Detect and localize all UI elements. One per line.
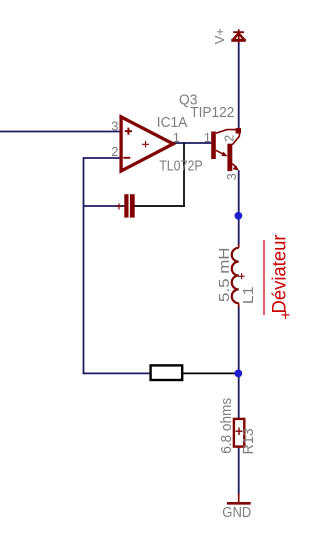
capacitor origin cross [116, 203, 123, 209]
wire R13 to GND [238, 446, 240, 495]
transistor Q3 base bar 2 [227, 144, 232, 171]
junction dot upper [235, 212, 243, 220]
wire pin2 to left vertical [84, 157, 122, 159]
svg-text:TIP122: TIP122 [190, 105, 234, 121]
svg-text:V+: V+ [212, 28, 227, 44]
wire emitter down to inductor [238, 170, 240, 245]
R13 origin cross [236, 428, 243, 436]
op-amp plus input mark [125, 128, 132, 135]
wire junction to R13 [238, 373, 240, 419]
junction dot lower [234, 370, 242, 378]
svg-text:L1: L1 [241, 287, 257, 305]
wire opamp output to transistor base [173, 142, 211, 144]
resistor R13 [234, 419, 244, 447]
transistor Q1 emitter with arrow [216, 150, 225, 154]
capacitor C plates [124, 194, 128, 217]
transistor Q2 emitter with arrow [232, 164, 235, 167]
inductor L1 [232, 244, 239, 308]
wire inductor to bottom junction [238, 307, 240, 375]
transistor Q2 collector line [232, 134, 239, 145]
op-amp U1 triangle [121, 117, 173, 171]
svg-text:2: 2 [111, 144, 118, 159]
svg-text:GND: GND [222, 505, 251, 521]
svg-text:R13: R13 [241, 428, 257, 454]
svg-text:3: 3 [225, 173, 239, 180]
resistor horizontal (black) [151, 365, 183, 380]
wire black vertical from output [183, 143, 185, 207]
svg-text:Déviateur: Déviateur [269, 234, 291, 313]
wire main vertical V+ to collector node [238, 43, 240, 129]
svg-text:2: 2 [223, 135, 237, 142]
ground symbol [238, 494, 240, 503]
wire capacitor right (black) [135, 205, 185, 207]
red annotation line [263, 240, 265, 315]
svg-text:6.8 ohms: 6.8 ohms [219, 398, 235, 454]
deviateur origin cross [282, 311, 290, 319]
op-amp origin cross [142, 141, 149, 148]
svg-text:1: 1 [204, 130, 211, 145]
svg-text:TL072P: TL072P [159, 159, 203, 175]
wire pin3 input from left edge [0, 131, 121, 133]
wire bottom horizontal to resistor [83, 372, 151, 374]
wire capacitor left [84, 205, 125, 207]
svg-text:3: 3 [111, 118, 118, 133]
svg-text:5.5 mH: 5.5 mH [217, 248, 233, 303]
wire left vertical feedback [83, 157, 85, 374]
transistor collector node square [236, 128, 241, 133]
transistor Q1 collector line [216, 130, 236, 134]
transistor Q3 base bar 1 [211, 132, 216, 160]
svg-text:IC1A: IC1A [157, 115, 188, 131]
op-amp minus input mark [123, 157, 130, 159]
svg-text:1: 1 [173, 130, 180, 145]
inductor origin cross [239, 273, 245, 279]
wire resistor right to junction (black) [182, 372, 239, 374]
V+ power symbol [231, 29, 246, 43]
